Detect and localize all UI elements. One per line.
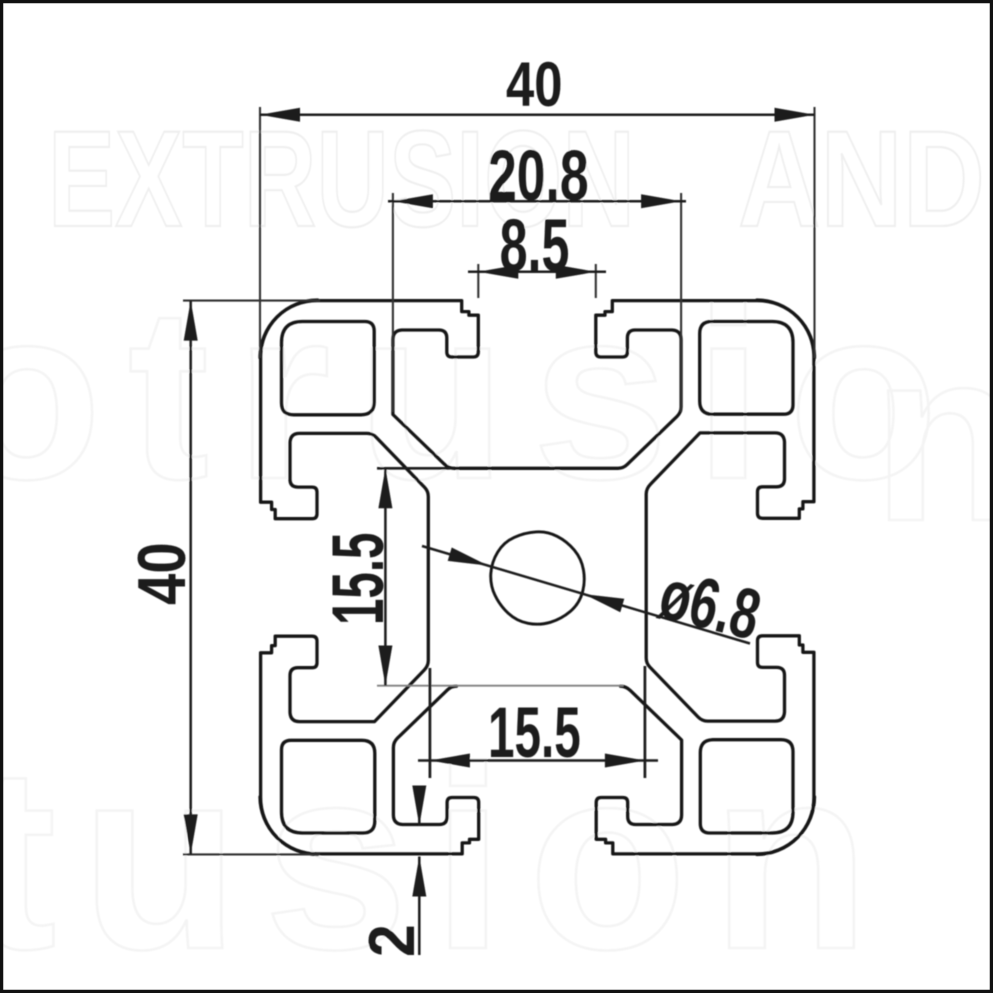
svg-text:2: 2 [356,924,428,957]
center bore circle dia 6.8 [491,532,585,624]
svg-text:otrusio: otrusio [0,256,964,530]
arrowheads dim 8.5 (inside pointing out) [478,265,518,279]
svg-text:15.5: 15.5 [318,533,400,625]
arrowheads dim 40 left [184,301,198,341]
corner chamber bottom-left [282,740,375,833]
svg-text:AND: AND [738,103,985,256]
dim 15.5 horizontal: dimension line [418,759,658,762]
dim 20.8: extension lines [393,193,681,412]
svg-text:8.5: 8.5 [500,205,570,287]
arrowheads dim 2 [412,786,426,826]
dim 40 left: extension lines [183,301,320,855]
svg-text:40: 40 [506,50,562,120]
corner chamber top-left [282,322,375,415]
svg-text:40: 40 [124,542,200,605]
corner chamber top-right [700,322,793,415]
watermark row middle [0,256,993,572]
arrowheads dim 20.8 [393,194,433,208]
svg-text:n: n [872,298,993,572]
corner chamber bottom-right [700,740,793,833]
watermark row top [48,103,985,256]
dim 8.5: extension lines [478,264,596,298]
profile outer contour: right side with T-slot [646,300,814,855]
dim 20.8: dimension line [388,200,686,203]
dia 6.8 leader line [422,546,750,644]
profile outer contour: top side with T-slot [260,301,815,469]
arrowheads dia 6.8 leader [448,548,488,566]
dim 15.5 vertical: dimension line [384,468,387,685]
svg-text:20.8: 20.8 [488,137,589,216]
profile outer contour: bottom side with T-slot (core face drawn thin separately) [260,686,815,854]
arrowheads dim 15.5 horizontal [430,754,470,768]
profile outer contour: left side with T-slot [261,300,429,855]
watermark row bottom [0,714,894,998]
arrowheads dim 15.5 vertical [378,468,392,508]
dim 8.5: dimension line with tails [468,271,606,274]
dim 2: leader line [418,791,421,955]
svg-text:15.5: 15.5 [488,692,581,772]
arrowheads dim 40 top [260,108,300,122]
core bottom face (thin) [377,685,624,687]
dim 40 top: dimension line [260,114,815,117]
dim 40 top: extension lines [260,107,815,358]
dim 40 left: dimension line [189,301,192,855]
